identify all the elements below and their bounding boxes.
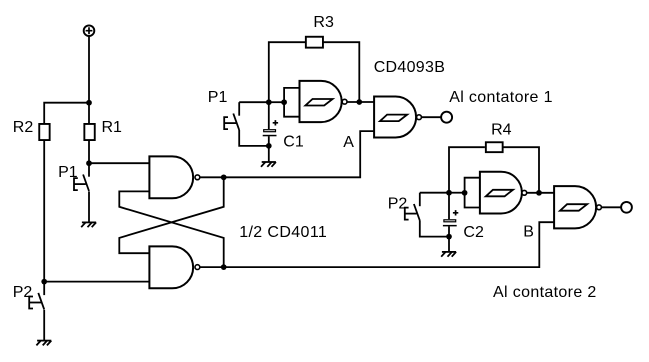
wire P2 bottom to C2 junction: [420, 221, 449, 237]
svg-text:P1: P1: [208, 89, 228, 106]
svg-text:R3: R3: [313, 14, 334, 31]
node on input bar U1C: [462, 190, 468, 196]
wire N2 to P2 switch: [420, 192, 449, 194]
ground under P2: [37, 340, 51, 342]
nand gate U1C (osc2): [480, 172, 522, 214]
resistor R1: [84, 124, 94, 140]
wire R1 to node S: [88, 141, 90, 163]
nand gate U2B (1/2 CD4011 bottom): [149, 246, 193, 288]
svg-text:R4: R4: [491, 122, 512, 139]
U1B output bubble: [417, 115, 422, 120]
svg-text:1/2 CD4011: 1/2 CD4011: [239, 224, 327, 241]
wire R2 to node R: [43, 141, 45, 282]
node rail junction: [86, 100, 92, 106]
resistor R4: [486, 142, 503, 152]
wire N1 to input bar: [269, 101, 284, 103]
svg-text:C1: C1: [283, 134, 304, 151]
wire node R to gate U2B input: [44, 281, 149, 283]
node S (R1 bottom): [86, 160, 92, 166]
pushbutton P1 (set): [88, 163, 90, 177]
svg-text:P2: P2: [13, 284, 33, 301]
svg-text:A: A: [343, 134, 354, 151]
wire R3 to U1A output node: [323, 42, 359, 102]
wire N2 to input bar: [449, 192, 465, 194]
pushbutton P2 (osc2): [419, 193, 421, 207]
node Q: [221, 174, 227, 180]
terminal Al contatore 2: [621, 202, 632, 213]
wire rail to R1: [88, 103, 90, 123]
U1C output bubble: [522, 190, 527, 195]
U1A output bubble: [342, 99, 347, 104]
terminal Al contatore 1: [441, 112, 452, 123]
capacitor C2: [453, 210, 458, 215]
wire C2 to ground junction: [448, 226, 450, 252]
wire P1 bottom to C1 junction: [239, 130, 269, 146]
nand gate U1B (to contatore 1): [374, 97, 416, 138]
nand gate U1A (CD4093B): [300, 81, 342, 122]
resistor R3: [306, 37, 323, 48]
wire node Qbar to node B wire: [224, 222, 554, 267]
pushbutton P2 (reset): [43, 282, 45, 296]
node R (R2 bottom): [41, 279, 47, 285]
wire power to rail junction: [88, 36, 90, 103]
U2A output bubble: [195, 175, 200, 180]
wire U1C output to U1D input: [527, 192, 554, 194]
svg-text:P1: P1: [58, 164, 78, 181]
svg-text:Al contatore 2: Al contatore 2: [493, 284, 597, 301]
wire cross-couple Q to U2B input: [119, 177, 223, 253]
wire node S to gate U2A input: [89, 162, 149, 164]
node U1C output: [536, 190, 542, 196]
wire N1 up to R3: [269, 42, 306, 102]
U1D output bubble: [597, 205, 602, 210]
wire node Q to gate U1B input (node A): [224, 131, 374, 177]
node Qbar: [221, 264, 227, 270]
wire U2B output to node Qbar: [200, 266, 224, 268]
wire R4 to U1C output node: [504, 147, 540, 193]
svg-text:R2: R2: [13, 119, 34, 136]
input tie bar U1C: [465, 178, 480, 208]
ground under C1: [262, 161, 276, 163]
svg-text:CD4093B: CD4093B: [374, 59, 445, 76]
wire N1 to P1 switch: [239, 101, 269, 103]
svg-text:Al contatore 1: Al contatore 1: [449, 89, 553, 106]
wire cross-couple Qbar to U2A input: [119, 191, 223, 267]
node C1 bottom: [266, 143, 272, 149]
power supply +: [84, 25, 95, 36]
wire U1D output to terminal: [602, 206, 622, 208]
nand gate U2A (1/2 CD4011 top): [149, 156, 193, 198]
wire rail to R2 branch: [44, 103, 89, 123]
wire N2 up to R4: [449, 147, 485, 193]
node N1: [266, 99, 272, 105]
ground under C2: [442, 251, 456, 253]
node on input bar U1A: [281, 99, 287, 105]
pushbutton P1 (osc1): [238, 102, 240, 116]
wire N2 down to C2: [448, 193, 450, 220]
svg-text:R1: R1: [102, 119, 123, 136]
U2B output bubble: [195, 265, 200, 270]
wire P1 to ground: [88, 191, 90, 222]
wire U2A output to node Q: [200, 176, 224, 178]
resistor R2: [39, 124, 49, 140]
svg-text:P2: P2: [388, 196, 408, 213]
input tie bar U1A: [284, 88, 299, 117]
wire U1B output to terminal: [422, 116, 442, 118]
svg-text:B: B: [523, 223, 534, 240]
wire N1 down to C1: [268, 102, 270, 129]
nand gate U1D (to contatore 2): [554, 186, 596, 228]
node N2: [446, 190, 452, 196]
svg-text:C2: C2: [463, 224, 484, 241]
node U1A output: [356, 99, 362, 105]
wire C1 to ground junction: [268, 136, 270, 162]
node C2 bottom: [446, 234, 452, 240]
wire U1A output to junction: [347, 101, 374, 103]
capacitor C1: [273, 120, 278, 125]
wire P2 to ground: [43, 310, 45, 341]
ground under P1: [82, 221, 96, 223]
